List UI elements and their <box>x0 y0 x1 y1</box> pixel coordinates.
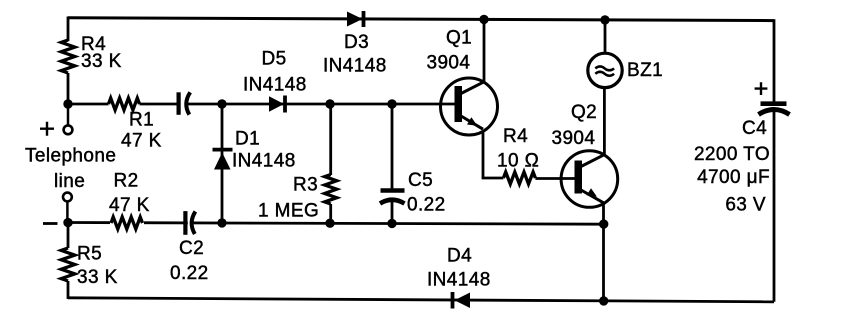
diode D5 (IN4148, on mid rail pointing right) <box>269 96 285 113</box>
wire Q1 emitter vertical <box>482 131 485 179</box>
svg-text:C4: C4 <box>742 118 767 139</box>
svg-text:Telephone: Telephone <box>25 146 116 167</box>
resistor R4 (10 ohm) <box>503 172 535 184</box>
label D1 <box>235 129 260 150</box>
label D4 <box>447 246 472 267</box>
label R3 value 1 MEG <box>258 201 319 222</box>
wire mid rail segment C <box>186 103 455 106</box>
wire C5 branch top lead <box>391 104 394 189</box>
node junction mid rail / D1 branch <box>217 99 226 108</box>
svg-text:D3: D3 <box>344 32 369 53</box>
node junction lower rail / Q2 emitter <box>599 219 608 228</box>
resistor R1 (47 K) <box>109 98 140 110</box>
svg-text:63 V: 63 V <box>725 195 766 216</box>
wire Q2 emitter vertical <box>602 204 605 301</box>
wire R4 bottom lead <box>67 73 70 104</box>
wire mid rail segment B <box>140 103 177 106</box>
node junction lower rail / left rail <box>63 218 72 227</box>
node junction top rail / Q1 collector <box>479 15 488 24</box>
label R2 <box>114 171 139 192</box>
label + sign (telephone line plus) <box>40 122 54 136</box>
svg-text:Q1: Q1 <box>446 28 472 49</box>
svg-text:10 Ω: 10 Ω <box>497 151 539 172</box>
node junction mid rail / R3 branch <box>325 99 334 108</box>
svg-text:R3: R3 <box>293 175 318 196</box>
diode D4 (IN4148, on bottom rail pointing left) <box>453 292 471 309</box>
label Q1 <box>446 28 472 49</box>
label C4 <box>742 118 767 139</box>
wire bottom rail <box>68 298 774 302</box>
wire D1 branch vertical <box>221 104 224 223</box>
svg-text:D5: D5 <box>262 49 287 70</box>
diode D1 (IN4148, pointing up) <box>213 150 233 170</box>
label C2 value 0.22 <box>170 263 209 284</box>
wire stub to + terminal <box>67 104 70 126</box>
wire R5 bottom lead <box>67 281 70 299</box>
label R3 <box>293 175 318 196</box>
label C5 value 0.22 <box>407 195 446 216</box>
label D1 value IN4148 <box>232 151 296 172</box>
label R4 (upper left) <box>81 34 106 55</box>
label - sign (telephone line minus) <box>43 222 58 225</box>
node junction lower rail / R3 branch <box>325 219 334 228</box>
svg-text:BZ1: BZ1 <box>627 60 663 81</box>
svg-text:D4: D4 <box>447 246 472 267</box>
wire buzzer to Q2 collector <box>603 87 606 155</box>
wire Q1 collector vertical <box>483 19 486 82</box>
label R4 (10 ohm) <box>503 126 528 147</box>
svg-text:C2: C2 <box>179 238 204 259</box>
node junction lower rail / D1 branch <box>217 218 226 227</box>
wire mid rail segment A <box>68 103 109 106</box>
svg-text:33 K: 33 K <box>77 267 118 288</box>
wire left rail top lead <box>67 17 70 42</box>
label D5 value IN4148 <box>243 75 307 96</box>
transistor Q2 (3904, NPN) <box>561 151 618 208</box>
label Q2 value 3904 <box>552 128 596 149</box>
label C5 <box>408 170 433 191</box>
label R4 value 10 ohm <box>497 151 539 172</box>
node junction top rail / buzzer branch <box>600 15 609 24</box>
svg-text:47 K: 47 K <box>109 195 150 216</box>
wire Q1 emitter to R4 lead <box>482 177 504 180</box>
diode D3 (IN4148, on top rail pointing right) <box>347 11 364 27</box>
node + terminal (open circle) <box>64 125 73 134</box>
svg-text:0.22: 0.22 <box>407 195 446 216</box>
wire buzzer top lead <box>604 20 607 54</box>
label C2 <box>179 238 204 259</box>
label R2 value 47 K <box>109 195 150 216</box>
wire stub - terminal to lower rail <box>66 201 69 222</box>
resistor R4 (33 K, upper left) <box>61 40 75 73</box>
node junction mid rail / C5 branch <box>387 99 396 108</box>
svg-text:4700 μF: 4700 μF <box>697 167 770 188</box>
svg-text:R5: R5 <box>77 244 102 265</box>
label BZ1 <box>627 60 663 81</box>
capacitor C5 (0.22) <box>380 191 405 204</box>
resistor R2 (47 K) redraw over lower rail <box>110 215 144 231</box>
capacitor C4 (2200 to 4700 uF 63 V) <box>759 104 790 115</box>
svg-text:line: line <box>54 171 85 192</box>
svg-text:2200 TO: 2200 TO <box>694 144 770 165</box>
buzzer BZ1 <box>588 53 622 87</box>
svg-text:IN4148: IN4148 <box>427 270 491 291</box>
resistor R5 (33 K) <box>61 248 75 281</box>
label C4 value 4700 uF <box>697 167 770 188</box>
resistor R3 (1 MEG) <box>325 175 337 205</box>
label Q1 value 3904 <box>427 53 471 74</box>
label Telephone <box>25 146 116 167</box>
label C4 value 63 V <box>725 195 766 216</box>
capacitor C1 (unlabeled, series coupling cap on mid rail) <box>179 92 191 115</box>
wire left rail bottom lead <box>67 223 70 249</box>
svg-text:47 K: 47 K <box>121 131 162 152</box>
node junction lower rail / C5 branch <box>387 219 396 228</box>
label Q2 <box>571 102 597 123</box>
wire R3 branch bottom lead <box>329 204 332 223</box>
label + sign (C4 polarity) <box>755 82 768 95</box>
svg-text:R4: R4 <box>503 126 528 147</box>
label R4 value 33 K <box>81 51 122 72</box>
svg-text:Q2: Q2 <box>571 102 597 123</box>
label line <box>54 171 85 192</box>
label D3 value IN4148 <box>323 56 387 77</box>
label D5 <box>262 49 287 70</box>
svg-text:1 MEG: 1 MEG <box>258 201 319 222</box>
svg-text:IN4148: IN4148 <box>323 56 387 77</box>
node junction at left rail / mid wire <box>63 99 72 108</box>
label C4 value 2200 TO <box>694 144 770 165</box>
wire R3 branch top lead <box>329 104 332 175</box>
capacitor C2 (0.22) <box>185 211 195 236</box>
svg-text:IN4148: IN4148 <box>232 151 296 172</box>
svg-text:R1: R1 <box>129 110 154 131</box>
node - terminal (open circle) <box>63 193 72 202</box>
wire top rail <box>68 18 774 21</box>
node junction bottom rail / Q2 emitter <box>599 296 608 305</box>
label D4 value IN4148 <box>427 270 491 291</box>
transistor Q1 (3904, NPN) <box>441 78 498 135</box>
svg-text:3904: 3904 <box>427 53 471 74</box>
label D3 <box>344 32 369 53</box>
svg-text:0.22: 0.22 <box>170 263 209 284</box>
svg-text:3904: 3904 <box>552 128 596 149</box>
wire right rail lower <box>773 111 776 302</box>
svg-text:33 K: 33 K <box>81 51 122 72</box>
label R5 <box>77 244 102 265</box>
label R5 value 33 K <box>77 267 118 288</box>
wire right rail upper <box>773 19 776 101</box>
label R1 <box>129 110 154 131</box>
wire lower rail <box>68 223 604 225</box>
label R1 value 47 K <box>121 131 162 152</box>
svg-text:D1: D1 <box>235 129 260 150</box>
wire R4 to Q2 base <box>535 177 574 180</box>
svg-text:R2: R2 <box>114 171 139 192</box>
svg-text:C5: C5 <box>408 170 433 191</box>
wire C5 branch bottom lead <box>391 199 394 223</box>
svg-text:IN4148: IN4148 <box>243 75 307 96</box>
